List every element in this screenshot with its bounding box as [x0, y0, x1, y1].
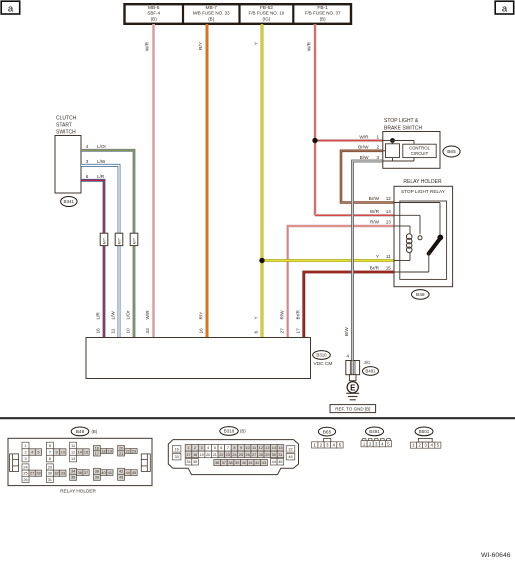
svg-text:41: 41 [108, 471, 112, 475]
svg-text:E: E [350, 383, 355, 392]
svg-text:38: 38 [95, 470, 99, 474]
svg-text:R/Y: R/Y [199, 311, 204, 320]
B48 pin groups top row [22, 442, 29, 449]
svg-text:2: 2 [194, 446, 196, 450]
svg-text:6: 6 [86, 174, 89, 179]
svg-text:17: 17 [186, 453, 190, 457]
svg-text:45: 45 [132, 471, 136, 475]
svg-text:27: 27 [30, 472, 34, 476]
svg-text:44: 44 [126, 471, 130, 475]
svg-text:2: 2 [24, 450, 26, 454]
wire L/W clutch switch pin 3 [81, 165, 119, 337]
svg-text:44: 44 [272, 460, 276, 464]
svg-text:a: a [8, 3, 14, 14]
svg-text:Br/W: Br/W [369, 196, 380, 201]
svg-text:Br/W: Br/W [358, 145, 369, 150]
svg-text:1: 1 [376, 134, 379, 139]
svg-text:L/Or: L/Or [126, 310, 131, 320]
svg-text:4: 4 [346, 354, 349, 359]
svg-text:26: 26 [245, 453, 249, 457]
junction node on W/R at brake switch branch [312, 138, 317, 143]
power supply strip [125, 4, 352, 24]
svg-text:M/T: M/T [102, 237, 106, 244]
svg-text:14: 14 [386, 209, 392, 214]
svg-text:REF. TO GND [B]: REF. TO GND [B] [335, 407, 370, 412]
svg-text:33: 33 [174, 455, 178, 459]
svg-text:15: 15 [278, 446, 282, 450]
svg-text:22: 22 [126, 449, 130, 453]
svg-text:6: 6 [49, 444, 51, 448]
svg-text:a: a [502, 3, 508, 14]
svg-text:10: 10 [126, 328, 131, 334]
svg-text:13: 13 [386, 220, 392, 225]
svg-text:4: 4 [207, 446, 209, 450]
svg-text:39: 39 [95, 476, 99, 480]
svg-text:31: 31 [48, 478, 52, 482]
svg-text:R/Y: R/Y [198, 41, 203, 50]
svg-text:23: 23 [132, 449, 136, 453]
svg-text:12: 12 [386, 196, 392, 201]
relay fixed contact [418, 236, 422, 240]
wire Y from FB-52 to VDC CM pin 6 [261, 24, 264, 338]
svg-text:3: 3 [86, 159, 89, 164]
svg-text:11: 11 [252, 446, 256, 450]
B48 pin groups bottom row [22, 464, 29, 470]
connector view B48 (B) relay holder [71, 427, 89, 436]
svg-text:CONTROL: CONTROL [409, 146, 431, 151]
svg-text:43: 43 [262, 461, 266, 465]
B310 side cells [172, 446, 181, 452]
svg-text:L/W: L/W [97, 159, 106, 164]
svg-text:27: 27 [252, 453, 256, 457]
svg-text:26: 26 [23, 478, 27, 482]
svg-text:WI-60646: WI-60646 [481, 552, 511, 559]
section divider [0, 417, 515, 419]
svg-text:6: 6 [254, 331, 259, 334]
svg-text:R/W: R/W [279, 310, 284, 320]
svg-text:8: 8 [233, 446, 235, 450]
right mounting tab [141, 454, 150, 472]
svg-text:29: 29 [265, 453, 269, 457]
wire W/R from FB-1 down to relay feed [314, 24, 317, 215]
svg-text:4: 4 [86, 144, 89, 149]
svg-text:W/R: W/R [370, 209, 380, 214]
wire Y branch to relay pin 11 [262, 259, 394, 262]
svg-text:(B): (B) [208, 16, 215, 21]
svg-text:SBF-4: SBF-4 [147, 11, 160, 16]
svg-text:(B): (B) [92, 429, 98, 434]
internal node dot [390, 138, 395, 143]
svg-text:21: 21 [213, 453, 217, 457]
svg-text:25: 25 [239, 453, 243, 457]
svg-text:1: 1 [187, 446, 189, 450]
svg-text:M/T: M/T [132, 237, 136, 244]
svg-text:32: 32 [288, 447, 292, 451]
svg-text:Br/R: Br/R [370, 266, 380, 271]
connector oval B341 [61, 197, 77, 207]
svg-text:25: 25 [23, 472, 27, 476]
svg-text:B341: B341 [64, 199, 75, 204]
svg-text:M/B FUSE NO. 33: M/B FUSE NO. 33 [193, 11, 230, 16]
VDC control module box B310 [86, 338, 311, 379]
reference box REF. TO GND [330, 405, 376, 413]
svg-text:B/W: B/W [344, 327, 349, 336]
svg-text:10: 10 [245, 446, 249, 450]
svg-text:B65: B65 [447, 149, 456, 155]
svg-text:15: 15 [84, 450, 88, 454]
svg-text:42: 42 [255, 461, 259, 465]
svg-text:29: 29 [48, 465, 52, 469]
svg-text:16: 16 [199, 328, 204, 334]
svg-text:(B): (B) [151, 16, 158, 21]
svg-text:20: 20 [119, 447, 123, 451]
svg-text:B65: B65 [323, 429, 332, 435]
wire Br/R relay pin 15 to VDC CM pin 17 [304, 272, 394, 338]
svg-text:B48: B48 [416, 292, 425, 298]
ground terminal E [347, 382, 358, 393]
junction node on Y wire [259, 258, 264, 263]
svg-text:12: 12 [259, 446, 263, 450]
svg-text:12: 12 [71, 450, 75, 454]
svg-text:J/C: J/C [364, 360, 372, 365]
svg-text:BRAKE SWITCH: BRAKE SWITCH [384, 125, 422, 131]
svg-text:R/W: R/W [370, 220, 380, 225]
svg-text:B310: B310 [316, 353, 327, 358]
svg-text:W/R: W/R [306, 41, 311, 51]
svg-text:B491: B491 [365, 369, 376, 374]
relay movable contact arm [429, 239, 440, 254]
svg-text:B48: B48 [76, 429, 85, 435]
joint connector B491 [346, 361, 360, 375]
relay internal wiring [394, 202, 440, 204]
svg-text:17: 17 [95, 452, 99, 456]
wire W/R from MB-5 to VDC CM pin 33 [152, 24, 155, 338]
svg-text:42: 42 [119, 470, 123, 474]
svg-text:SWITCH: SWITCH [56, 130, 76, 136]
svg-text:2: 2 [376, 145, 379, 150]
svg-text:23: 23 [226, 453, 230, 457]
option box M/T on wire 3 [130, 233, 138, 245]
svg-text:32: 32 [54, 472, 58, 476]
connector view B491 [366, 427, 384, 436]
svg-text:19: 19 [200, 453, 204, 457]
svg-text:38: 38 [228, 461, 232, 465]
B310 pin grid row 2 [185, 451, 192, 458]
svg-text:33: 33 [145, 328, 150, 334]
svg-text:3: 3 [201, 446, 203, 450]
svg-text:36: 36 [215, 461, 219, 465]
option box M/T on wire 1 [100, 233, 108, 245]
wire L/Or clutch switch pin 4 [81, 150, 134, 337]
left mounting tab [10, 454, 19, 472]
svg-text:VDC CM: VDC CM [314, 361, 333, 367]
svg-text:18: 18 [101, 449, 105, 453]
svg-text:CLUTCH: CLUTCH [56, 116, 77, 122]
svg-text:4: 4 [31, 450, 33, 454]
svg-text:34: 34 [71, 470, 75, 474]
B310 pin grid row 1 [185, 445, 192, 452]
svg-text:(IG): (IG) [263, 16, 271, 21]
svg-text:30: 30 [48, 472, 52, 476]
svg-text:34: 34 [186, 460, 190, 464]
option box M/T on wire 2 [115, 233, 123, 245]
svg-text:13: 13 [265, 446, 269, 450]
wire switch internals [383, 140, 393, 142]
svg-text:13: 13 [71, 457, 75, 461]
svg-text:W/R: W/R [145, 310, 150, 320]
svg-text:39: 39 [235, 461, 239, 465]
svg-text:31: 31 [278, 453, 282, 457]
wire L/R clutch switch pin 6 [81, 180, 104, 337]
svg-text:17: 17 [295, 328, 300, 334]
svg-text:STOP LIGHT RELAY: STOP LIGHT RELAY [401, 189, 446, 194]
svg-text:W/R: W/R [359, 134, 369, 139]
svg-text:W/R: W/R [145, 41, 150, 51]
svg-text:24: 24 [23, 465, 27, 469]
svg-text:14: 14 [272, 446, 276, 450]
svg-text:3: 3 [24, 457, 26, 461]
svg-text:21: 21 [119, 452, 123, 456]
svg-text:41: 41 [249, 461, 253, 465]
svg-text:Br/R: Br/R [295, 310, 300, 320]
svg-text:36: 36 [78, 471, 82, 475]
svg-text:11: 11 [386, 254, 391, 259]
svg-text:27: 27 [279, 328, 284, 334]
svg-text:5: 5 [214, 446, 216, 450]
svg-text:16: 16 [96, 328, 101, 334]
svg-text:40: 40 [242, 461, 246, 465]
svg-text:22: 22 [219, 453, 223, 457]
svg-text:10: 10 [61, 450, 65, 454]
svg-text:15: 15 [386, 266, 392, 271]
svg-text:L/R: L/R [97, 174, 105, 179]
svg-text:START: START [56, 123, 72, 129]
svg-text:18: 18 [193, 453, 197, 457]
svg-text:(B): (B) [320, 16, 327, 21]
svg-text:28: 28 [259, 453, 263, 457]
connector oval B65 [443, 146, 460, 157]
B310 pin grid row 3 [185, 459, 192, 465]
svg-text:37: 37 [222, 461, 226, 465]
svg-text:9: 9 [55, 450, 57, 454]
svg-text:33: 33 [61, 472, 65, 476]
svg-text:16: 16 [174, 447, 178, 451]
connector oval B48 [412, 290, 430, 300]
relay coil [406, 234, 412, 240]
svg-text:30: 30 [272, 453, 276, 457]
wire Br/W stop light switch pin 2 to relay pin 12 [341, 151, 394, 203]
svg-text:11: 11 [111, 328, 116, 333]
svg-text:24: 24 [232, 453, 236, 457]
svg-text:35: 35 [71, 476, 75, 480]
zone marker a (top-right) [495, 1, 514, 14]
ground lead [349, 375, 356, 381]
wire branch W/R to stop light switch pin 1 [315, 139, 383, 142]
connector view B65 [318, 427, 335, 436]
wire B/W stop light switch pin 3 to joint connector [353, 161, 383, 361]
svg-text:20: 20 [206, 453, 210, 457]
svg-text:7: 7 [227, 446, 229, 450]
svg-text:6: 6 [220, 446, 222, 450]
svg-text:43: 43 [119, 476, 123, 480]
control circuit box [403, 144, 436, 157]
svg-text:B491: B491 [369, 429, 380, 434]
svg-text:F/B FUSE NO. 10: F/B FUSE NO. 10 [249, 11, 285, 16]
svg-text:40: 40 [101, 471, 105, 475]
wire R/W relay pin 13 to VDC CM pin 27 [288, 226, 394, 338]
svg-text:45: 45 [278, 460, 282, 464]
svg-text:1: 1 [24, 444, 26, 448]
connector view B310 (B) VDC CM [220, 427, 238, 436]
svg-text:14: 14 [78, 450, 82, 454]
svg-text:3: 3 [376, 155, 379, 160]
svg-text:L/R: L/R [96, 312, 101, 320]
svg-text:7: 7 [49, 450, 51, 454]
svg-text:STOP LIGHT &: STOP LIGHT & [384, 118, 419, 124]
svg-text:B310: B310 [224, 429, 235, 434]
wire B/W through joint connector to ground [351, 361, 353, 381]
svg-text:9: 9 [240, 446, 242, 450]
svg-text:19: 19 [108, 449, 112, 453]
wire W/R to stop light relay pin 14 [315, 214, 394, 217]
svg-text:37: 37 [84, 471, 88, 475]
connector view B501 [415, 427, 433, 436]
svg-text:(B): (B) [240, 429, 246, 434]
svg-text:11: 11 [71, 444, 75, 448]
connector oval B310 [313, 351, 331, 360]
svg-text:28: 28 [36, 472, 40, 476]
svg-text:F/B FUSE NO. 37: F/B FUSE NO. 37 [305, 11, 341, 16]
wire R/Y from MB-7 to VDC CM pin 16 [206, 24, 209, 338]
svg-text:CIRCUIT: CIRCUIT [411, 151, 429, 156]
svg-text:16: 16 [95, 447, 99, 451]
svg-text:8: 8 [49, 457, 51, 461]
svg-text:L/Or: L/Or [97, 144, 107, 149]
svg-text:46: 46 [288, 455, 292, 459]
ground symbol [346, 392, 359, 394]
svg-text:RELAY HOLDER: RELAY HOLDER [403, 179, 442, 185]
svg-text:B501: B501 [419, 429, 430, 434]
svg-text:35: 35 [193, 460, 197, 464]
svg-text:L/W: L/W [111, 311, 116, 320]
svg-text:RELAY HOLDER: RELAY HOLDER [60, 488, 96, 493]
svg-text:B/W: B/W [360, 155, 369, 160]
switch contact box [386, 144, 400, 158]
svg-text:M/T: M/T [117, 237, 121, 244]
svg-text:5: 5 [37, 450, 39, 454]
zone marker a (top-left) [1, 1, 20, 14]
